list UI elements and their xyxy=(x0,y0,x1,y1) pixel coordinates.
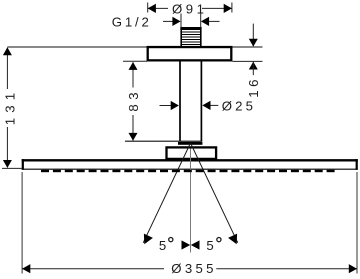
dim 131 line xyxy=(6,48,8,89)
dim O91 line xyxy=(148,7,168,9)
dim 16 top line xyxy=(252,24,254,46)
svg-text:16: 16 xyxy=(246,76,261,98)
svg-text:5: 5 xyxy=(206,238,213,253)
dim 16 top arrow xyxy=(249,39,258,47)
flange (ceiling escutcheon) xyxy=(148,47,232,60)
angle dimension bowtie arrow right xyxy=(191,240,200,249)
nozzle dashes xyxy=(41,170,335,172)
dim O355 line xyxy=(22,268,164,270)
dim 83 line xyxy=(132,62,134,87)
svg-text:G1/2: G1/2 xyxy=(112,15,152,30)
connector block xyxy=(167,147,217,159)
dim 83 arrows xyxy=(129,62,138,70)
dim O91 extension line right xyxy=(231,3,233,13)
shower plate interior xyxy=(23,160,356,169)
spray fan left line xyxy=(143,143,190,243)
svg-text:Ø91: Ø91 xyxy=(172,2,207,17)
svg-text:131: 131 xyxy=(3,88,18,126)
dim O355 arrows xyxy=(22,264,30,273)
dim O355 extension line left xyxy=(21,172,23,274)
dim 16 bottom line xyxy=(252,62,254,76)
svg-text:5: 5 xyxy=(159,238,166,253)
shower plate left edge xyxy=(22,159,24,170)
pipe end / extension line for dim 83 xyxy=(125,140,202,142)
spray centre axis line xyxy=(190,149,192,253)
dim O25 left arrow xyxy=(171,101,179,110)
shower plate bottom edge xyxy=(22,168,358,170)
shower plate right edge xyxy=(356,159,358,170)
dim O25 tail xyxy=(211,104,219,106)
thread hatch lines xyxy=(182,32,201,45)
dim O355 extension line right xyxy=(356,172,358,274)
dim G1/2 right arrow xyxy=(201,17,209,26)
dim O25 left tail xyxy=(160,105,172,107)
flange bottom extension line left (for dim 83) xyxy=(123,60,147,62)
dim O25 arrow xyxy=(202,101,210,110)
dim 131 bottom extension line xyxy=(2,167,22,169)
spray fan right line xyxy=(191,143,238,243)
dim 131 arrows xyxy=(3,47,12,55)
thread stem extension line left xyxy=(180,14,182,28)
dim G1/2 right tail xyxy=(209,20,219,22)
neck (ball joint) xyxy=(178,142,202,145)
dim O91 arrows xyxy=(148,4,156,13)
svg-text:83: 83 xyxy=(126,88,141,112)
thread stem right wall xyxy=(200,27,202,47)
svg-text:Ø355: Ø355 xyxy=(171,261,216,276)
svg-text:Ø25: Ø25 xyxy=(222,98,256,113)
dim G1/2 left arrow xyxy=(172,17,180,26)
thread stem left wall xyxy=(180,27,182,47)
spray fan left arrowhead xyxy=(144,234,153,245)
shower plate top edge xyxy=(22,159,358,161)
dim 16 bottom arrow xyxy=(249,62,258,70)
thread stem cap xyxy=(180,27,201,30)
dim G1/2 left tail xyxy=(163,20,173,22)
ceiling line xyxy=(7,46,262,48)
flange bottom extension line right (for dim 16) xyxy=(233,60,263,62)
angle dimension bowtie arrow left xyxy=(182,240,191,249)
dim O91 extension line left xyxy=(147,3,149,13)
thread stem extension line right xyxy=(200,14,202,28)
pipe right wall xyxy=(200,62,202,142)
spray fan right arrowhead xyxy=(228,234,237,245)
pipe left wall xyxy=(179,62,181,142)
